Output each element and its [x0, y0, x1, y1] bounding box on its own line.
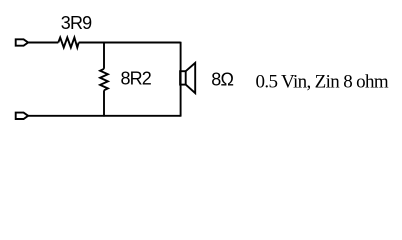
wire right vertical: top corner through speaker to bottom corner [180, 42, 182, 117]
speaker LS1 cone [186, 63, 196, 93]
terminal input top [16, 39, 28, 45]
wire bottom: terminal to right corner [28, 115, 181, 117]
wire: resistor R2 to bottom wire [103, 90, 105, 116]
wire top: terminal to resistor R1 [28, 42, 58, 44]
svg-text:0.5 Vin, Zin 8 ohm: 0.5 Vin, Zin 8 ohm [256, 72, 389, 93]
terminal input bottom [16, 113, 28, 119]
svg-text:3R9: 3R9 [61, 13, 92, 33]
svg-text:8R2: 8R2 [121, 69, 152, 89]
speaker LS1 driver box [180, 71, 186, 84]
wire: node junction down to resistor R2 [103, 42, 105, 69]
resistor R1 3R9 (series) [58, 38, 78, 48]
wire top: resistor R1 to right corner [79, 42, 181, 44]
svg-text:8Ω: 8Ω [211, 70, 233, 90]
resistor R2 8R2 (shunt) [100, 69, 108, 91]
